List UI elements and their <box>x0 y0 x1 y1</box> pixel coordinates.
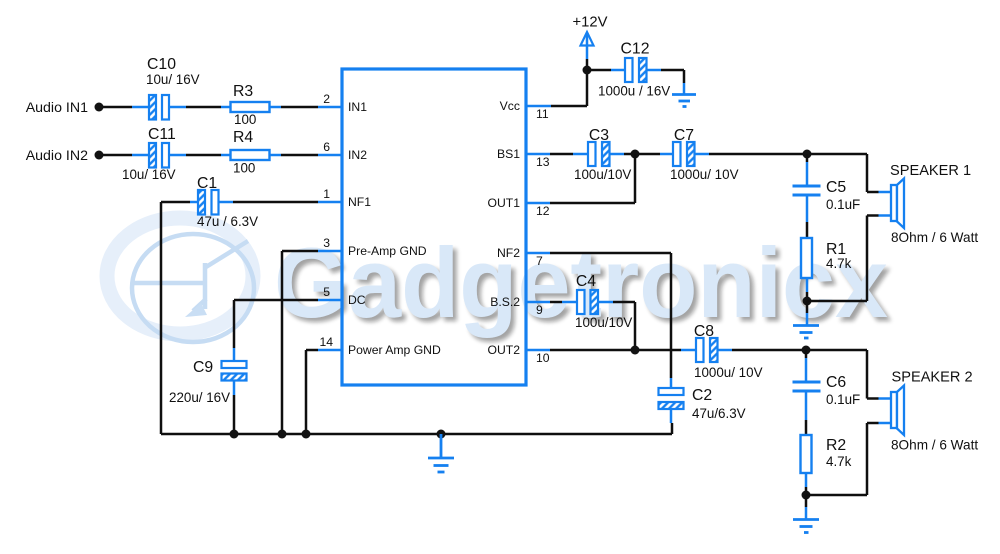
svg-text:C3: C3 <box>589 127 609 144</box>
svg-text:SPEAKER 2: SPEAKER 2 <box>892 370 973 386</box>
svg-text:Power Amp GND: Power Amp GND <box>348 343 441 357</box>
op-amp IC U1 body <box>342 69 526 385</box>
resistor R1 <box>801 238 852 278</box>
wire B.S.2 row <box>550 302 635 350</box>
svg-text:NF2: NF2 <box>497 246 520 260</box>
capacitor C10 <box>146 56 200 120</box>
svg-text:14: 14 <box>319 335 333 349</box>
svg-text:R4: R4 <box>233 129 253 146</box>
wire speaker1 bottom lead <box>867 214 891 217</box>
wire Vcc to +12V <box>551 59 587 106</box>
svg-text:Vcc: Vcc <box>500 99 520 113</box>
watermark logo outer ring <box>107 218 253 334</box>
wire C6 branch top <box>805 350 808 382</box>
node Audio IN1 terminal <box>26 100 104 116</box>
capacitor C6 <box>793 382 821 391</box>
pin 2 IN1 <box>318 92 367 114</box>
wire OUT1 up to BS1 <box>550 154 635 203</box>
wire R1 to junction <box>806 278 809 301</box>
pin 14 Power Amp GND <box>318 335 441 357</box>
svg-text:6: 6 <box>323 140 330 154</box>
node Audio IN2 terminal <box>26 148 104 164</box>
svg-text:IN2: IN2 <box>348 148 367 162</box>
svg-text:8Ohm / 6 Watt: 8Ohm / 6 Watt <box>891 438 978 453</box>
svg-text:C1: C1 <box>197 175 217 192</box>
svg-text:C9: C9 <box>193 359 213 376</box>
capacitor C7 <box>670 127 739 182</box>
svg-text:0.1uF: 0.1uF <box>826 392 860 407</box>
node junction pwrgnd-bus <box>302 430 311 439</box>
node junction +12V <box>583 66 592 75</box>
watermark logo arrow head <box>185 303 207 317</box>
node junction C6 branch <box>802 346 811 355</box>
svg-text:100u/10V: 100u/10V <box>574 167 631 182</box>
svg-text:4.7k: 4.7k <box>826 256 852 271</box>
svg-text:10u/ 16V: 10u/ 16V <box>146 72 200 87</box>
svg-text:R2: R2 <box>826 437 846 454</box>
svg-text:C6: C6 <box>826 374 846 391</box>
power +12V symbol <box>573 15 608 60</box>
resistor R3 <box>231 83 270 127</box>
pin 12 OUT1 <box>487 196 550 218</box>
svg-text:OUT1: OUT1 <box>487 196 520 210</box>
wire R2 to junction <box>805 473 808 495</box>
capacitor C3 <box>574 127 631 182</box>
svg-text:C12: C12 <box>621 41 650 58</box>
svg-text:R3: R3 <box>233 83 253 100</box>
wire IN2 row <box>103 154 318 157</box>
pin 7 NF2 <box>497 246 550 268</box>
pin 1 NF1 <box>318 187 371 209</box>
svg-text:Pre-Amp GND: Pre-Amp GND <box>348 244 427 258</box>
wire C12 to ground <box>647 70 685 95</box>
svg-text:Audio IN1: Audio IN1 <box>26 100 88 116</box>
svg-text:C5: C5 <box>826 179 846 196</box>
pin 3 Pre-Amp GND <box>318 236 427 258</box>
svg-text:C4: C4 <box>576 273 596 290</box>
svg-text:0.1uF: 0.1uF <box>826 197 860 212</box>
svg-text:4.7k: 4.7k <box>826 454 852 469</box>
wire +12V to C12 <box>587 69 625 72</box>
svg-text:B.S.2: B.S.2 <box>490 295 520 309</box>
wire BS1 row <box>550 153 867 156</box>
svg-text:IN1: IN1 <box>348 100 367 114</box>
wire speaker1 top leads <box>867 154 891 192</box>
pin 5 DC <box>318 285 366 307</box>
wire C9 to bus <box>233 381 236 435</box>
svg-text:100u/10V: 100u/10V <box>575 315 632 330</box>
node junction C9-bus <box>230 430 239 439</box>
svg-text:12: 12 <box>536 204 550 218</box>
svg-text:DC: DC <box>348 293 366 307</box>
wire Pre-Amp GND to bus <box>282 251 318 434</box>
watermark logo transistor lines <box>133 241 248 311</box>
pin 10 OUT2 <box>487 343 550 365</box>
svg-text:1000u/ 10V: 1000u/ 10V <box>670 167 739 182</box>
node junction R2-speaker2 <box>802 491 811 500</box>
svg-text:1000u/ 10V: 1000u/ 10V <box>694 365 763 380</box>
svg-text:47u/6.3V: 47u/6.3V <box>692 406 746 421</box>
capacitor C12 <box>598 41 670 99</box>
node junction preamp-bus <box>278 430 287 439</box>
capacitor C4 <box>575 273 632 330</box>
svg-text:13: 13 <box>536 155 550 169</box>
svg-text:9: 9 <box>536 303 543 317</box>
svg-text:BS1: BS1 <box>497 147 520 161</box>
svg-text:C7: C7 <box>674 127 694 144</box>
wire C5 to R1 <box>806 195 809 238</box>
svg-text:1: 1 <box>323 187 330 201</box>
ground R1 <box>806 301 809 326</box>
svg-text:2: 2 <box>323 92 330 106</box>
node junction OUT1-BS1 <box>631 150 640 159</box>
capacitor C1 <box>197 175 258 229</box>
wire speaker2 bottom lead <box>867 422 891 425</box>
svg-text:NF1: NF1 <box>348 195 371 209</box>
node junction gnd-bus <box>437 430 446 439</box>
ground R2 <box>805 495 808 520</box>
svg-text:10u/ 16V: 10u/ 16V <box>122 167 176 182</box>
svg-text:C8: C8 <box>694 323 714 340</box>
wire IN1 row <box>103 106 318 109</box>
svg-text:47u / 6.3V: 47u / 6.3V <box>197 214 258 229</box>
svg-text:+12V: +12V <box>573 15 608 31</box>
wire junction to speaker2 bottom <box>806 423 867 495</box>
svg-text:C10: C10 <box>147 56 176 73</box>
pin 13 BS1 <box>497 147 550 169</box>
svg-text:C11: C11 <box>148 126 176 143</box>
capacitor C11 <box>122 126 176 182</box>
ground main <box>428 434 454 472</box>
ground C12 <box>672 95 696 107</box>
svg-text:7: 7 <box>536 254 543 268</box>
capacitor C9 <box>169 359 247 405</box>
speaker SPEAKER 1 <box>890 163 978 245</box>
wire bottom ground bus <box>161 433 672 436</box>
resistor R2 <box>801 435 852 473</box>
svg-text:C2: C2 <box>692 387 712 404</box>
watermark logo inner circle <box>132 234 254 342</box>
wire junction to speaker1 bottom <box>807 216 867 302</box>
node junction C4-OUT2 <box>631 346 640 355</box>
svg-text:100: 100 <box>233 161 255 176</box>
speaker SPEAKER 2 <box>891 370 978 453</box>
wire OUT2 row <box>550 349 867 352</box>
svg-text:1000u / 16V: 1000u / 16V <box>598 84 670 99</box>
svg-text:220u/ 16V: 220u/ 16V <box>169 390 230 405</box>
resistor R4 <box>231 129 270 176</box>
svg-text:10: 10 <box>536 351 550 365</box>
svg-text:OUT2: OUT2 <box>487 343 520 357</box>
capacitor C2 <box>659 387 746 421</box>
wire C5 branch top <box>806 154 809 186</box>
pin 9 B.S.2 <box>490 295 550 317</box>
svg-text:8Ohm / 6 Watt: 8Ohm / 6 Watt <box>891 230 978 245</box>
node junction C5 branch <box>803 150 812 159</box>
pin 6 IN2 <box>318 140 367 162</box>
wire DC row <box>234 300 318 361</box>
svg-text:SPEAKER 1: SPEAKER 1 <box>890 163 971 179</box>
wire C6 to R2 <box>805 391 808 435</box>
wire NF1 left vertical to bus <box>160 202 163 434</box>
svg-text:11: 11 <box>536 107 549 121</box>
wire speaker2 top lead <box>867 350 891 399</box>
node junction R1-speaker1 <box>803 297 812 306</box>
svg-text:5: 5 <box>323 285 330 299</box>
pin 11 Vcc <box>500 99 551 121</box>
capacitor C8 <box>694 323 763 380</box>
wire Power Amp GND to bus <box>306 350 318 434</box>
svg-text:100: 100 <box>234 112 256 127</box>
wire NF1 row <box>161 201 318 204</box>
svg-text:3: 3 <box>323 236 330 250</box>
wire NF2 row down to C2 <box>550 253 671 388</box>
wire C2 to bus <box>671 409 672 434</box>
capacitor C5 <box>793 186 821 195</box>
svg-text:Audio IN2: Audio IN2 <box>26 148 88 164</box>
